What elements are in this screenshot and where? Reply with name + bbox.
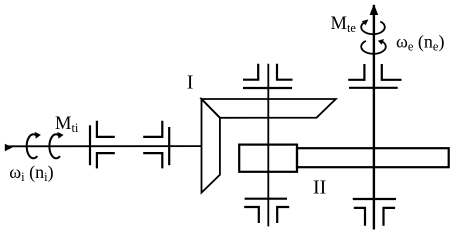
rotation arrow upper on output shaft	[361, 19, 385, 34]
wire intermediate vertical shaft	[267, 64, 269, 227]
wire output vertical shaft	[373, 5, 375, 230]
top bearing right bracket (output shaft)	[382, 64, 402, 80]
bottom bearing left bracket (output shaft)	[354, 208, 365, 226]
arrowhead at top of output shaft	[370, 4, 379, 15]
rotation arrow 1 on shaft I	[27, 132, 41, 158]
bearing B2 line (right bearing, shaft I)	[168, 127, 170, 165]
bottom bearing right bracket (output shaft)	[384, 208, 396, 226]
top bearing line (output shaft)	[349, 87, 398, 89]
rotation arrow 2 on shaft I	[49, 132, 63, 158]
arrowhead at left end of shaft I	[5, 144, 13, 151]
bottom bearing line (intermediate shaft)	[245, 198, 287, 200]
bevel pinion on shaft I	[202, 99, 220, 193]
bottom bearing right bracket (intermediate shaft)	[277, 207, 289, 223]
svg-text:ωe (ne): ωe (ne)	[396, 31, 444, 53]
svg-text:ωi (ni): ωi (ni)	[9, 162, 53, 184]
top bearing right bracket (intermediate shaft)	[277, 64, 293, 80]
bottom bearing left bracket (intermediate shaft)	[244, 207, 259, 223]
bearing B1 line (left bearing, shaft I)	[89, 125, 91, 165]
bearing B1 lower bracket	[97, 153, 115, 168]
bearing B2 lower bracket	[143, 153, 162, 168]
bearing B2 upper bracket	[143, 121, 162, 137]
bevel wheel on intermediate vertical shaft	[202, 99, 336, 118]
rotation arrow lower on output shaft	[361, 39, 386, 54]
top bearing left bracket (output shaft)	[348, 64, 364, 80]
svg-text:I: I	[187, 71, 194, 93]
svg-text:II: II	[313, 177, 326, 199]
svg-text:Mte: Mte	[331, 14, 357, 35]
bearing B1 upper bracket	[97, 121, 115, 137]
spur wheel gear on output shaft	[297, 148, 449, 167]
bottom bearing line (output shaft)	[353, 198, 396, 200]
top bearing line (intermediate shaft)	[243, 87, 292, 89]
top bearing left bracket (intermediate shaft)	[243, 64, 258, 80]
wire shaft I (input horizontal shaft)	[6, 145, 202, 147]
svg-text:Mti: Mti	[55, 114, 79, 135]
spur pinion gear on intermediate shaft	[239, 145, 297, 172]
